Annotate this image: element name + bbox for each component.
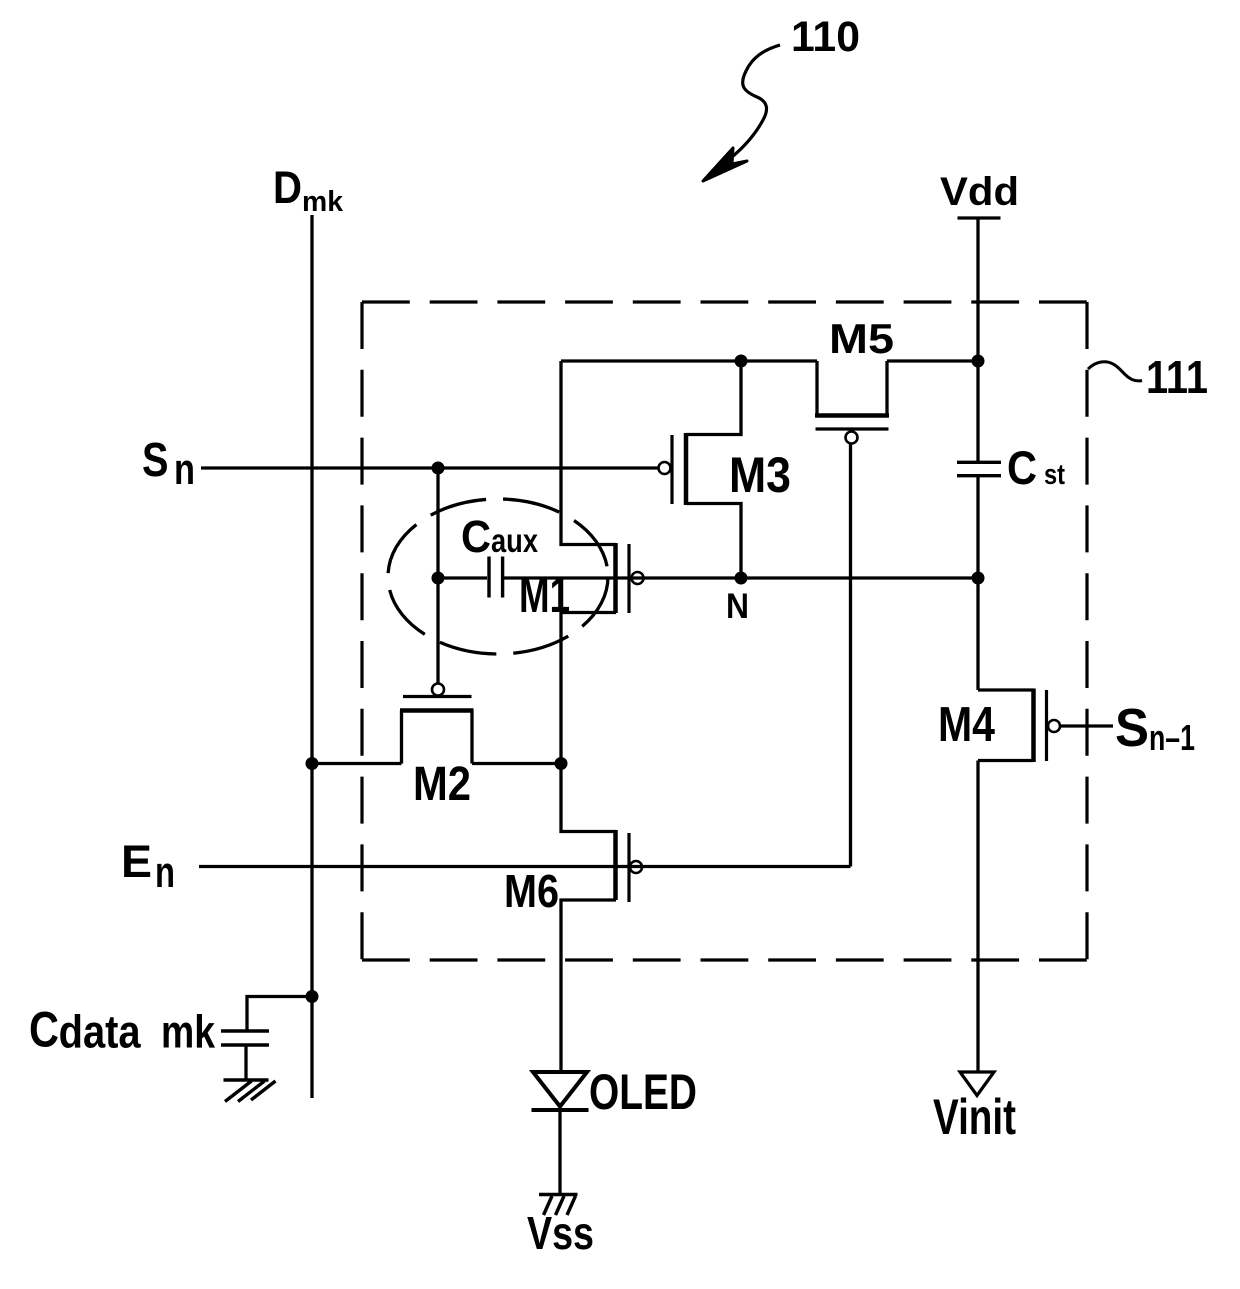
svg-text:Vinit: Vinit	[933, 1089, 1016, 1145]
squiggle leader to 111	[1088, 362, 1142, 381]
svg-text:M3: M3	[729, 447, 791, 503]
svg-text:110: 110	[791, 13, 860, 61]
svg-text:mk: mk	[302, 186, 344, 218]
net label Sn	[142, 434, 195, 494]
label Cdata mk	[29, 1002, 215, 1058]
ground Cdata	[224, 1080, 276, 1102]
junction node N at M3 drain	[735, 572, 748, 585]
transistor M2	[400, 684, 474, 764]
junction Dmk / Cdata	[306, 990, 319, 1003]
wire Vdd column Cst to M4	[976, 477, 979, 690]
net label Dmk	[273, 162, 344, 218]
svg-text:n: n	[174, 445, 195, 494]
junction top rail / Vdd	[972, 355, 985, 368]
svg-text:C: C	[461, 511, 491, 562]
svg-text:C: C	[1007, 441, 1037, 494]
capacitor Cdata plates	[221, 1029, 269, 1032]
svg-text:n–1: n–1	[1149, 717, 1195, 758]
node N wire (Caux to Vdd column)	[503, 576, 978, 579]
net label En	[121, 836, 175, 897]
dashed pixel circuit boundary 111	[362, 302, 1087, 960]
dashed ellipse around Caux/M1	[388, 499, 608, 654]
svg-text:C: C	[29, 1002, 59, 1058]
wire M4 gate to Sn-1	[1061, 724, 1114, 727]
Vdd terminal bar	[958, 216, 1001, 219]
wire Dmk to M2 source	[312, 762, 402, 765]
junction Sn / gate column	[432, 462, 445, 475]
capacitor Cst plates	[957, 461, 1001, 464]
svg-text:M2: M2	[413, 758, 471, 811]
capacitor Cst label	[1007, 441, 1065, 494]
net label Sn-1	[1115, 698, 1195, 758]
svg-text:E: E	[121, 836, 152, 887]
leader arrow to 110	[703, 45, 780, 181]
svg-text:M5: M5	[829, 315, 894, 362]
wire M2 drain to M1 column	[472, 762, 561, 765]
wire En horizontal	[199, 865, 851, 868]
junction Dmk / M2	[306, 757, 319, 770]
wire Cdata to ground	[244, 1047, 247, 1080]
wire Dmk vertical	[310, 215, 313, 1098]
capacitor Caux label	[461, 511, 539, 562]
svg-text:st: st	[1044, 459, 1065, 491]
diode OLED	[532, 1072, 589, 1194]
junction top rail / M3	[735, 355, 748, 368]
ground Vss	[539, 1195, 578, 1216]
wire top rail left	[561, 359, 817, 362]
svg-text:D: D	[273, 162, 302, 213]
terminal Vinit triangle	[960, 1072, 994, 1096]
wire top rail right	[887, 359, 978, 362]
svg-text:data: data	[59, 1006, 141, 1058]
svg-text:M1: M1	[519, 567, 570, 623]
transistor M5	[815, 361, 889, 444]
wire M4 drain to Vinit	[976, 761, 979, 1072]
junction Caux tap	[432, 572, 445, 585]
svg-text:Vdd: Vdd	[940, 170, 1019, 214]
capacitor Caux plates	[487, 557, 490, 598]
svg-text:M4: M4	[938, 698, 995, 752]
svg-text:S: S	[142, 434, 169, 487]
svg-text:M6: M6	[504, 865, 559, 917]
transistor M3	[659, 361, 742, 578]
svg-text:mk: mk	[161, 1006, 215, 1058]
wire gate column (Sn to M2 gate)	[436, 468, 439, 684]
transistor M4	[978, 689, 1060, 763]
wire Vdd vertical	[976, 218, 979, 462]
svg-text:OLED: OLED	[589, 1064, 697, 1120]
wire Sn horizontal	[201, 466, 658, 469]
wire M5 gate down to En	[849, 444, 852, 867]
junction node N at Vdd column	[972, 572, 985, 585]
transistor M6	[561, 764, 642, 1072]
svg-text:S: S	[1115, 698, 1149, 758]
svg-text:aux: aux	[491, 522, 539, 559]
wire Cdata to Dmk	[247, 997, 312, 1030]
svg-text:N: N	[726, 587, 749, 626]
transistor M1	[561, 361, 644, 764]
svg-text:n: n	[155, 848, 175, 897]
svg-text:Vss: Vss	[527, 1207, 594, 1259]
svg-text:111: 111	[1146, 351, 1208, 403]
junction M1/M2/M6 column	[555, 757, 568, 770]
capacitor Caux left lead	[438, 576, 487, 579]
